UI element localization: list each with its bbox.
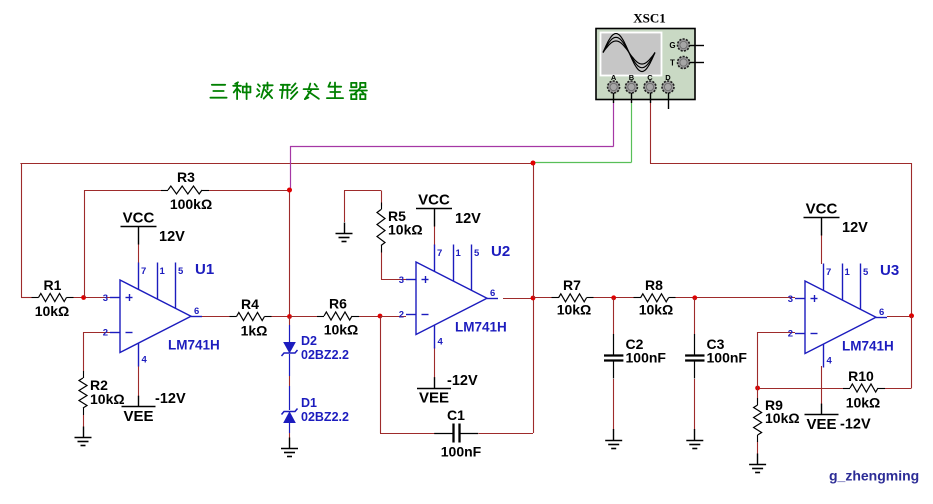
svg-text:02BZ2.2: 02BZ2.2 — [301, 410, 349, 424]
svg-text:10kΩ: 10kΩ — [90, 391, 125, 407]
svg-text:XSC1: XSC1 — [633, 11, 666, 26]
wire U2 output vertical down to C1 — [533, 298, 535, 433]
wire U1 pin2 horizontal — [83, 332, 110, 334]
op-amp U1 — [110, 263, 202, 367]
svg-text:6: 6 — [879, 307, 884, 318]
junction U3 output — [909, 313, 914, 318]
junction R3 right / rail — [287, 188, 292, 193]
svg-text:C1: C1 — [447, 407, 465, 423]
svg-text:R8: R8 — [645, 277, 663, 293]
wire D1 bottom segments — [289, 423, 291, 438]
wire R9 bottom to ground — [757, 441, 759, 454]
wire scope B green — [534, 103, 632, 163]
wire U3 output vertical down to R10 — [911, 316, 913, 388]
svg-text:10kΩ: 10kΩ — [639, 302, 674, 318]
oscilloscope terminal T — [670, 57, 704, 69]
svg-text:3: 3 — [788, 294, 793, 305]
svg-text:7: 7 — [141, 266, 146, 277]
svg-text:VEE: VEE — [419, 390, 449, 407]
wire R5 top vertical — [381, 191, 383, 207]
wire R1 left — [21, 297, 32, 299]
wire C2 vertical top — [613, 298, 615, 335]
svg-text:5: 5 — [178, 266, 184, 277]
svg-text:-12V: -12V — [840, 417, 871, 433]
svg-text:U2: U2 — [491, 243, 510, 260]
svg-text:D2: D2 — [301, 334, 317, 348]
svg-text:R1: R1 — [44, 277, 62, 293]
svg-text:VCC: VCC — [806, 201, 838, 218]
svg-text:R6: R6 — [329, 296, 347, 312]
wire scope C red — [650, 103, 912, 316]
wire C3 vertical top — [694, 298, 696, 335]
svg-text:VEE: VEE — [123, 408, 153, 425]
wire VCC U3 to pin7 — [821, 234, 823, 264]
svg-text:G: G — [669, 41, 675, 50]
wire U3 pin2 horizontal — [758, 332, 795, 334]
wire C1 branch vertical — [380, 316, 382, 433]
svg-text:LM741H: LM741H — [168, 338, 220, 353]
VEE symbol U3 — [805, 404, 839, 415]
svg-text:2: 2 — [399, 310, 404, 321]
svg-text:g_zhengming: g_zhengming — [829, 468, 919, 484]
op-amp U2 — [406, 245, 498, 349]
wire D2-D1 segments — [289, 354, 291, 410]
svg-text:10kΩ: 10kΩ — [846, 395, 881, 411]
ground under R9 — [749, 454, 766, 473]
op-amp U3 — [795, 264, 887, 368]
zener diode D2 — [282, 343, 298, 357]
svg-text:1: 1 — [456, 248, 462, 259]
wire U2 pin4 to VEE — [434, 347, 436, 378]
resistor R8 — [634, 294, 676, 302]
junction R8/C3 — [692, 295, 697, 300]
svg-text:5: 5 — [863, 267, 869, 278]
svg-text:U1: U1 — [195, 261, 214, 278]
svg-text:100nF: 100nF — [441, 444, 482, 460]
oscilloscope terminal B — [625, 73, 637, 103]
resistor R3 — [161, 186, 209, 194]
svg-text:R10: R10 — [848, 368, 874, 384]
svg-text:10kΩ: 10kΩ — [765, 410, 800, 426]
wire R5 top horizontal — [344, 190, 381, 192]
VCC symbol U3 — [804, 218, 840, 236]
junction green wire / top feedback — [531, 161, 536, 166]
svg-text:10kΩ: 10kΩ — [35, 303, 70, 319]
ground under C2 — [605, 429, 622, 449]
svg-text:100nF: 100nF — [626, 350, 667, 366]
junction R1/R3/pin3 — [81, 295, 86, 300]
svg-text:3: 3 — [103, 293, 108, 304]
svg-text:2: 2 — [788, 329, 793, 340]
wire C3 bottom to ground — [694, 379, 696, 430]
svg-text:02BZ2.2: 02BZ2.2 — [301, 348, 349, 362]
svg-text:U3: U3 — [880, 262, 899, 279]
wire R4 right to junction — [272, 316, 290, 318]
capacitor C2 — [604, 334, 623, 379]
capacitor C1 — [434, 424, 478, 443]
wire R3 right horizontal — [206, 190, 290, 192]
oscilloscope terminal D — [662, 73, 674, 109]
wire R8 right to U3 pin3 — [676, 297, 796, 299]
VEE symbol U1 — [122, 396, 156, 407]
ground under R5 — [336, 223, 353, 242]
svg-text:100kΩ: 100kΩ — [170, 196, 212, 212]
svg-text:7: 7 — [826, 267, 831, 278]
svg-text:10kΩ: 10kΩ — [388, 222, 423, 238]
wire top feedback horizontal — [20, 163, 533, 165]
svg-text:12V: 12V — [159, 229, 185, 245]
svg-text:3: 3 — [399, 275, 404, 286]
svg-text:1: 1 — [160, 266, 166, 277]
wire U1 pin2 vertical to R2 — [83, 332, 85, 372]
svg-text:VCC: VCC — [418, 192, 450, 209]
svg-text:2: 2 — [103, 328, 108, 339]
lead D2 top blue — [289, 325, 291, 343]
VEE symbol U2 — [417, 377, 451, 388]
wire R7-R8 — [594, 297, 634, 299]
resistor R1 — [32, 294, 74, 302]
wire C1 left horizontal — [380, 433, 436, 435]
wire mid rail vertical x290 — [289, 190, 291, 317]
svg-text:1: 1 — [845, 267, 851, 278]
wire VCC U1 to pin7 — [138, 244, 140, 263]
wire scope A magenta — [290, 103, 614, 190]
resistor R5 — [377, 203, 385, 253]
wire C2 bottom to ground — [613, 379, 615, 430]
wire U3 output — [887, 316, 912, 318]
junction U2 output — [531, 296, 536, 301]
svg-text:6: 6 — [194, 306, 199, 317]
junction R4/R6/rail — [287, 314, 292, 319]
junction R7/C2 — [611, 295, 616, 300]
svg-text:D1: D1 — [301, 396, 317, 410]
svg-text:R3: R3 — [177, 169, 195, 185]
wire R5 bottom vertical — [381, 249, 383, 280]
svg-text:-12V: -12V — [155, 391, 186, 407]
junction R9/R10/U3 pin2 net — [755, 386, 760, 391]
wire R3 left vertical drop — [84, 190, 86, 298]
oscilloscope terminal G — [669, 39, 704, 51]
wire D2 top red segment — [289, 317, 291, 326]
svg-text:10kΩ: 10kΩ — [324, 322, 359, 338]
wire U1 output to R4 — [201, 316, 230, 318]
junction magenta wire / R3 right (top) — [287, 188, 292, 193]
svg-text:R7: R7 — [563, 277, 581, 293]
ground under D1 — [281, 438, 298, 457]
svg-text:VEE: VEE — [806, 416, 836, 433]
oscilloscope terminal A — [608, 73, 620, 103]
wire R10 left to R9 junction — [758, 388, 843, 390]
svg-text:12V: 12V — [455, 211, 481, 227]
wire junction to U2 pin2 — [380, 316, 406, 318]
svg-text:12V: 12V — [842, 220, 868, 236]
svg-text:R4: R4 — [241, 296, 259, 312]
wire R9 top — [757, 388, 759, 403]
wire C1 right horizontal — [479, 433, 534, 435]
ground under R2 — [75, 427, 92, 446]
wire R5 ground drop — [344, 191, 346, 223]
title text 三种波形发生器 (drawn strokes) — [210, 82, 367, 99]
resistor R7 — [552, 294, 594, 302]
junction top wire / green scope B wire — [531, 161, 536, 166]
svg-text:4: 4 — [142, 355, 148, 366]
wire U3 pin4 to VEE — [821, 366, 823, 405]
resistor R2 — [79, 371, 87, 415]
svg-text:LM741H: LM741H — [455, 320, 507, 335]
wire R10 right — [885, 388, 912, 390]
svg-text:4: 4 — [438, 337, 444, 348]
svg-text:6: 6 — [490, 288, 495, 299]
svg-text:7: 7 — [437, 248, 442, 259]
resistor R4 — [230, 313, 272, 321]
zener diode D1 — [282, 409, 298, 423]
svg-text:100nF: 100nF — [707, 350, 748, 366]
resistor R9 — [754, 398, 762, 442]
svg-text:LM741H: LM741H — [842, 339, 894, 354]
svg-text:1kΩ: 1kΩ — [241, 323, 268, 339]
wire R5 to U2 pin3 — [381, 279, 406, 281]
junction scope C wire / U3 output — [909, 313, 914, 318]
svg-text:10kΩ: 10kΩ — [557, 302, 592, 318]
resistor R6 — [317, 312, 359, 320]
svg-text:-12V: -12V — [447, 373, 478, 389]
wire R6 right to junction — [359, 316, 380, 318]
oscilloscope XSC1 body — [596, 29, 695, 100]
wire U1 pin4 to VEE — [138, 366, 140, 397]
wire R6 left — [290, 316, 318, 318]
oscilloscope terminal C — [644, 73, 656, 103]
wire R7 row from U2 output — [533, 297, 552, 299]
svg-text:T: T — [670, 59, 675, 68]
wire U2 output vertical up — [533, 163, 535, 298]
wire left rail vertical — [21, 163, 23, 298]
wire VCC U2 to pin7 — [434, 226, 436, 246]
wire R3 left horizontal — [84, 190, 164, 192]
wire R2 bottom to ground — [83, 415, 85, 427]
svg-text:4: 4 — [827, 356, 833, 367]
junction R6/C1 branch/U2 pin2 — [378, 314, 383, 319]
svg-text:VCC: VCC — [123, 210, 155, 227]
svg-text:5: 5 — [474, 248, 480, 259]
resistor R10 — [843, 384, 885, 392]
VCC symbol U1 — [121, 227, 157, 245]
ground under C3 — [686, 429, 703, 449]
wire U2 output — [503, 298, 533, 300]
wire U3 pin2 vertical — [757, 332, 759, 388]
VCC symbol U2 — [416, 209, 452, 227]
wire R1 right to U1 pin3 — [74, 297, 111, 299]
capacitor C3 — [685, 334, 704, 379]
